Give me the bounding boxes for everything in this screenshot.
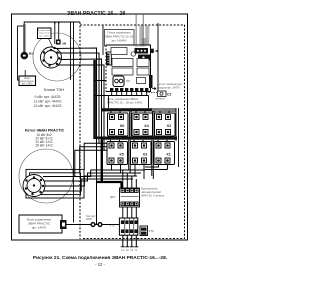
svg-text:К6: К6 [120,124,124,128]
svg-text:ХТ2: ХТ2 [149,229,155,233]
svg-text:QF1: QF1 [110,195,116,199]
svg-text:L3: L3 [130,249,133,252]
svg-text:Рисунок 21. Схема подключения: Рисунок 21. Схема подключения ЭВАН PRACT… [33,255,167,261]
svg-text:К3: К3 [143,153,147,157]
svg-text:автоматический: автоматический [142,190,162,194]
svg-text:L1: L1 [121,249,124,252]
svg-text:К5: К5 [120,153,124,157]
svg-text:ХТ1: ХТ1 [110,224,116,228]
svg-text:Выключатель: Выключатель [142,187,159,191]
svg-text:ВА47-29, 3 полюса: ВА47-29, 3 полюса [142,194,165,198]
svg-text:L2: L2 [126,249,129,252]
svg-text:К2: К2 [167,124,171,128]
svg-text:К4: К4 [145,124,149,128]
svg-text:N: N [135,249,137,252]
svg-text:К1: К1 [167,153,171,157]
svg-text:- 22 -: - 22 - [95,262,105,267]
